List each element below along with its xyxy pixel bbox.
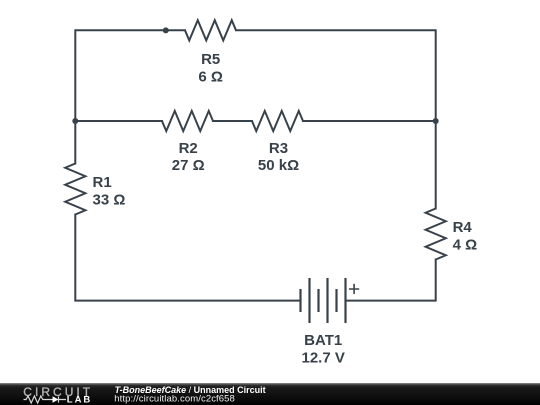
node junction dot left (left rail / middle rail) (72, 118, 78, 124)
svg-text:R5: R5 (201, 51, 220, 68)
wire bottom-right corner (right rail to bottom rail) (346, 260, 436, 301)
svg-text:http://circuitlab.com/c2cf658: http://circuitlab.com/c2cf658 (114, 394, 235, 405)
svg-text:R1: R1 (93, 174, 112, 191)
svg-text:R4: R4 (453, 219, 473, 236)
svg-text:R3: R3 (269, 140, 288, 157)
svg-text:33 Ω: 33 Ω (93, 191, 126, 208)
svg-text:BAT1: BAT1 (304, 332, 342, 349)
svg-text:4 Ω: 4 Ω (453, 236, 478, 253)
svg-text:50 kΩ: 50 kΩ (258, 157, 299, 174)
node junction dot right (right rail / middle rail) (433, 118, 439, 124)
wire middle rail left segment (75, 120, 162, 122)
footer bar (0, 383, 540, 405)
wire middle rail right segment (303, 120, 436, 122)
svg-text:R2: R2 (179, 140, 198, 157)
wire top-left corner (left rail to top rail) (75, 30, 185, 163)
logo resistor-diode symbol (24, 396, 67, 403)
logo diode triangle (53, 396, 59, 403)
battery BAT1 long plate 3 (344, 278, 346, 323)
resistor R1 (65, 164, 85, 215)
battery BAT1 short plate 2 (317, 289, 319, 312)
svg-text:12.7 V: 12.7 V (302, 350, 345, 367)
resistor R5 (185, 20, 236, 40)
battery BAT1 long plate 2 (326, 278, 328, 323)
battery BAT1 short plate 3 (335, 289, 337, 312)
resistor R3 (252, 111, 303, 131)
svg-text:6 Ω: 6 Ω (198, 68, 223, 85)
wire bottom-left corner (left rail to bottom rail) (75, 215, 300, 301)
battery BAT1 plus sign (349, 284, 359, 294)
resistor R4 (426, 209, 446, 260)
wire between R2 and R3 (213, 120, 252, 122)
svg-text:LAB: LAB (67, 394, 91, 405)
svg-text:27 Ω: 27 Ω (172, 157, 205, 174)
battery BAT1 long plate 1 (308, 278, 310, 323)
resistor R2 (162, 111, 213, 131)
wire top-right corner (top rail to right rail) (236, 30, 436, 208)
node junction dot on top rail (163, 27, 169, 33)
battery BAT1 short plate 1 (299, 289, 301, 312)
